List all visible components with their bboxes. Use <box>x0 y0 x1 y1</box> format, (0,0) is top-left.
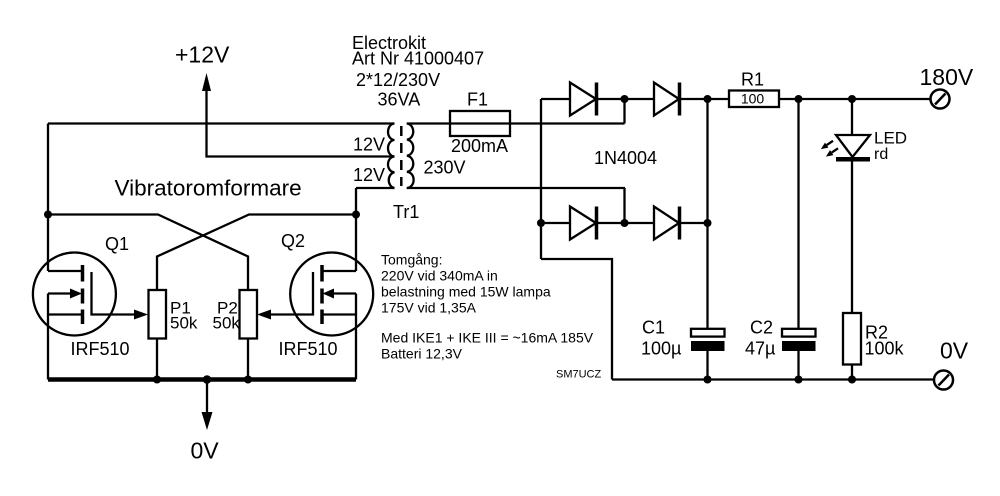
svg-text:12V: 12V <box>353 165 385 185</box>
LED light arrows <box>821 141 838 157</box>
wire cross-couple A (Q1 drain to P2 top) <box>48 215 248 291</box>
svg-text:IRF510: IRF510 <box>279 339 338 359</box>
svg-text:F1: F1 <box>467 90 488 110</box>
svg-text:100µ: 100µ <box>641 339 681 359</box>
svg-text:C1: C1 <box>642 318 665 338</box>
svg-text:SM7UCZ: SM7UCZ <box>556 369 602 381</box>
potentiometer P1 <box>149 290 167 339</box>
node dot P1 bottom <box>153 376 161 384</box>
node dot D3-D4 <box>621 219 629 227</box>
svg-text:50k: 50k <box>170 314 198 333</box>
wire secondary top to fuse <box>407 122 625 124</box>
svg-text:Med IKE1 + IKE III = ~16mA 185: Med IKE1 + IKE III = ~16mA 185V <box>381 330 594 346</box>
diode D4 <box>654 207 708 240</box>
svg-text:2*12/230V: 2*12/230V <box>356 70 440 90</box>
wire primary bottom to right rail <box>356 187 395 189</box>
note Tomgang block <box>381 252 594 362</box>
node dot bridge + top <box>704 95 712 103</box>
LED D5 <box>836 99 870 313</box>
svg-text:100k: 100k <box>865 339 905 359</box>
wire right rail upper (Q2 drain net) <box>355 188 357 271</box>
svg-text:220V vid 340mA in: 220V vid 340mA in <box>381 268 498 284</box>
+12V arrowhead <box>202 73 211 91</box>
wire P1 bottom <box>156 339 158 380</box>
wire secondary bottom to D3-D4 node <box>407 188 625 223</box>
svg-text:230V: 230V <box>424 158 466 178</box>
node dot 0V arrow <box>203 375 212 384</box>
svg-text:Q1: Q1 <box>105 234 129 254</box>
terminal 0V right <box>934 371 953 390</box>
node dot bridge + bottom <box>704 219 712 227</box>
svg-text:Batteri 12,3V: Batteri 12,3V <box>381 346 463 362</box>
wire top-left horizontal (Q1 drain to primary top) <box>48 122 395 124</box>
svg-text:R1: R1 <box>741 70 764 90</box>
diode D3 <box>541 207 654 240</box>
node dot D1-D2 <box>621 95 629 103</box>
svg-text:180V: 180V <box>920 64 974 90</box>
svg-text:+12V: +12V <box>175 42 230 68</box>
resistor R2 <box>843 313 861 365</box>
diode D2 <box>654 83 729 116</box>
transistor Q2 (IRF510) <box>257 253 373 380</box>
svg-text:100: 100 <box>741 91 765 107</box>
transistor Q1 (IRF510) <box>33 253 148 380</box>
capacitor C1 <box>691 329 725 380</box>
svg-text:47µ: 47µ <box>745 339 775 359</box>
svg-text:Art Nr 41000407: Art Nr 41000407 <box>352 49 484 69</box>
svg-text:36VA: 36VA <box>378 90 421 110</box>
node dot C2 bottom <box>795 376 803 384</box>
fuse F1 <box>450 111 510 136</box>
node A junction dot left rail <box>44 211 52 219</box>
wire cross-couple B (Q2 drain to P1 top) <box>157 215 356 291</box>
node dot R2 bottom <box>848 376 856 384</box>
wire bridge - to 0V rail <box>541 259 612 380</box>
svg-text:belastning med 15W lampa: belastning med 15W lampa <box>381 284 551 300</box>
svg-text:1N4004: 1N4004 <box>594 148 657 168</box>
svg-text:200mA: 200mA <box>451 136 508 156</box>
wire 0V rail right <box>612 378 934 380</box>
node B junction dot right rail <box>352 211 360 219</box>
svg-text:0V: 0V <box>940 338 969 364</box>
wire left rail upper (drain net) <box>47 124 49 272</box>
svg-text:0V: 0V <box>191 438 220 464</box>
0V down arrow <box>206 380 208 414</box>
transformer Tr1 <box>388 124 414 189</box>
svg-text:Tomgång:: Tomgång: <box>381 252 442 268</box>
svg-text:LED: LED <box>874 128 907 147</box>
svg-text:Q2: Q2 <box>281 231 305 251</box>
node dot C1 bottom <box>704 376 712 384</box>
wire R1 to 180V terminal <box>779 98 930 100</box>
svg-text:rd: rd <box>874 146 888 163</box>
potentiometer P2 <box>240 290 258 339</box>
capacitor C2 <box>782 99 816 380</box>
svg-text:175V vid 1,35A: 175V vid 1,35A <box>381 300 477 316</box>
node dot LED branch top <box>848 95 856 103</box>
wire jog up to D1-D2 node <box>623 99 625 124</box>
wire R2 bottom <box>851 365 853 380</box>
svg-text:50k: 50k <box>213 314 241 333</box>
resistor R1 <box>729 91 779 108</box>
node dot bridge left bottom <box>537 219 545 227</box>
svg-text:12V: 12V <box>353 135 385 155</box>
svg-text:Tr1: Tr1 <box>393 202 419 222</box>
wire +12V vertical and center-tap feed <box>207 88 395 157</box>
node dot P2 bottom <box>244 376 252 384</box>
svg-text:Vibratoromformare: Vibratoromformare <box>115 176 302 201</box>
node dot C2 branch top <box>795 95 803 103</box>
svg-text:C2: C2 <box>750 318 773 338</box>
wire bridge + vertical down to C1 <box>706 99 708 329</box>
diode D1 <box>541 83 654 116</box>
wire bridge left vertical <box>540 99 542 259</box>
wire P2 bottom <box>247 339 249 380</box>
terminal 180V <box>931 90 950 109</box>
svg-text:IRF510: IRF510 <box>71 339 130 359</box>
wire bottom rail (0V battery rail) <box>48 377 356 382</box>
